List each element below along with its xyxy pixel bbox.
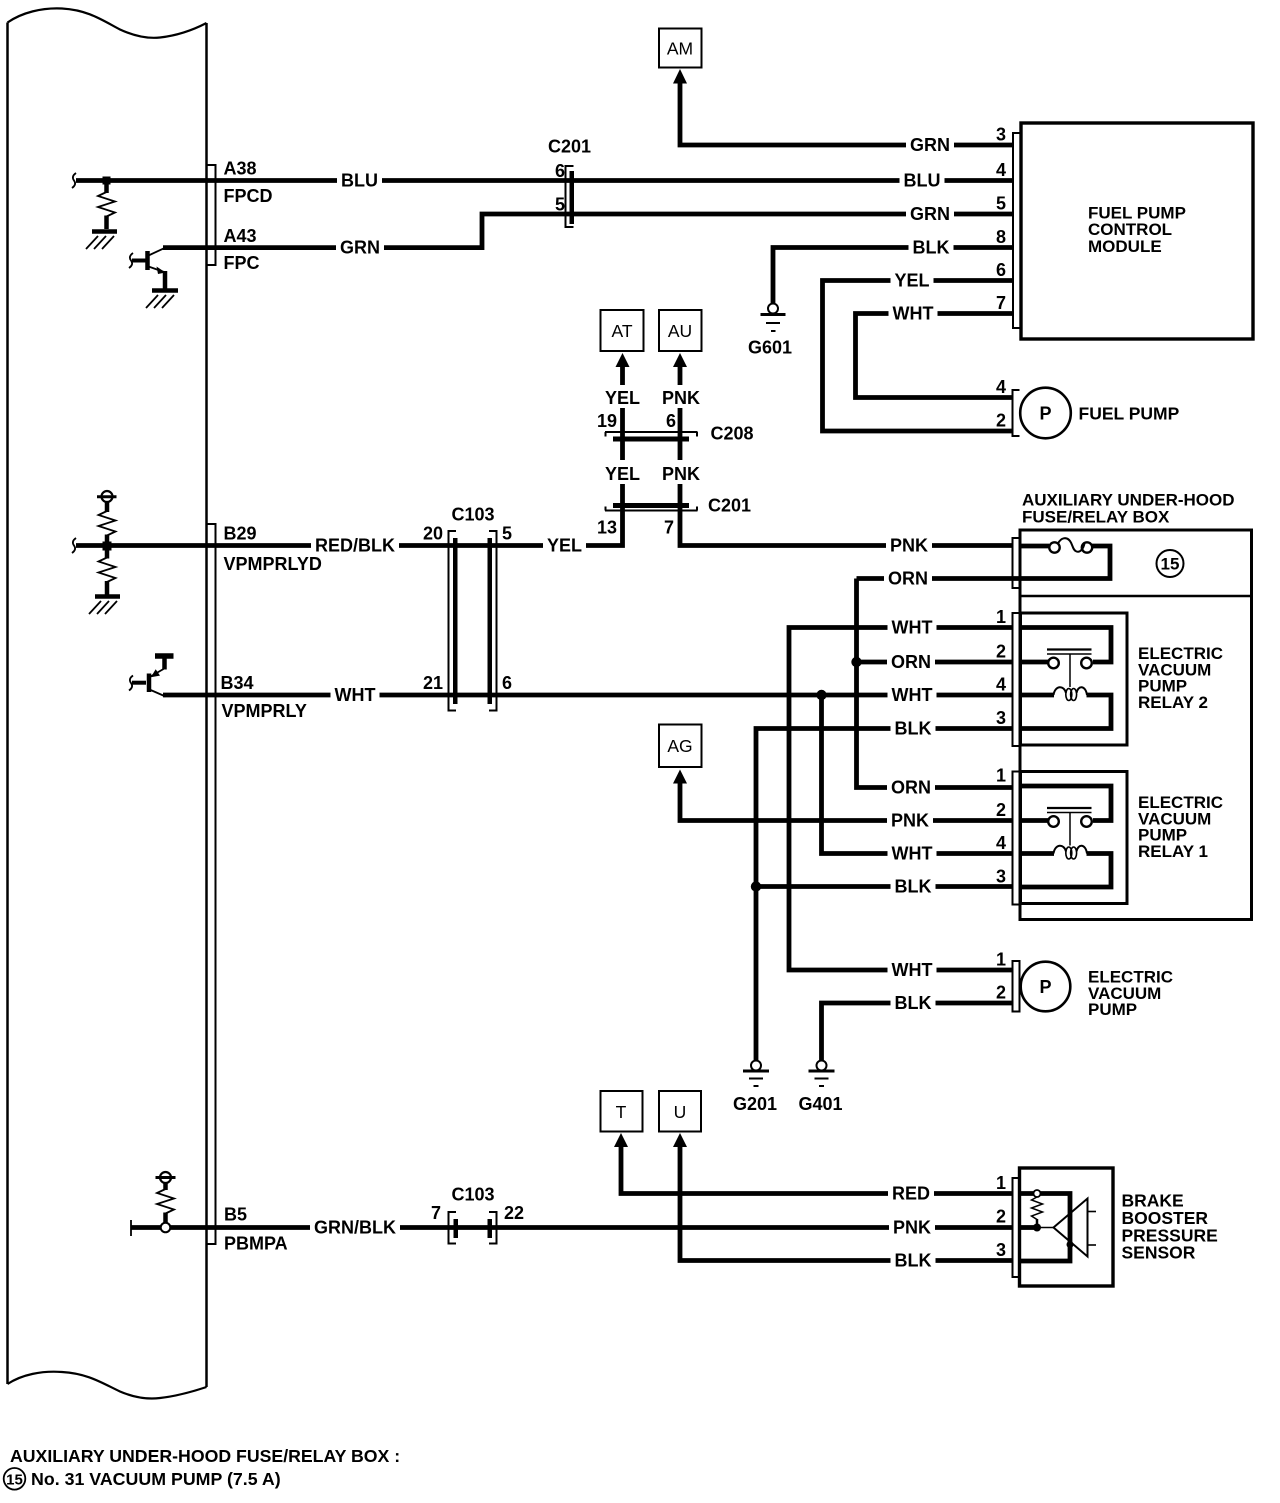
electric vacuum pump motor circle P bbox=[1021, 962, 1071, 1012]
svg-text:PBMPA: PBMPA bbox=[224, 1234, 288, 1254]
wire label WHT (pump pin1) bbox=[888, 959, 937, 981]
svg-text:AU: AU bbox=[668, 321, 692, 341]
connector C201 (middle horizontal) bbox=[605, 503, 698, 511]
svg-text:P: P bbox=[1039, 977, 1051, 997]
svg-text:GRN: GRN bbox=[910, 135, 950, 155]
svg-text:1: 1 bbox=[996, 607, 1006, 627]
svg-text:PNK: PNK bbox=[893, 1218, 931, 1238]
svg-text:BLK: BLK bbox=[895, 719, 932, 739]
connector box U bbox=[659, 1091, 701, 1132]
wire label BLK (pump pin2) bbox=[891, 992, 936, 1014]
svg-text:VPMPRLYD: VPMPRLYD bbox=[224, 554, 322, 574]
brake booster pressure sensor box bbox=[1020, 1168, 1114, 1286]
wire label RED bbox=[888, 1182, 934, 1204]
svg-text:2: 2 bbox=[996, 1207, 1006, 1227]
svg-text:No. 31 VACUUM PUMP (7.5 A): No. 31 VACUUM PUMP (7.5 A) bbox=[31, 1469, 281, 1489]
sensor internal circuit bbox=[1021, 1190, 1096, 1261]
svg-text:RELAY 2: RELAY 2 bbox=[1138, 693, 1208, 712]
fuel pump control module box bbox=[1021, 123, 1253, 339]
wire YEL between C208 and C201 bbox=[620, 442, 625, 461]
wire label WHT (B34 left) bbox=[331, 684, 380, 706]
svg-text:3: 3 bbox=[996, 1240, 1006, 1260]
svg-text:2: 2 bbox=[996, 983, 1006, 1003]
junction dot WHT branch on B34 row bbox=[816, 690, 826, 700]
wire BLK from U to sensor pin 3 bbox=[680, 1146, 1013, 1261]
svg-text:RED: RED bbox=[892, 1184, 930, 1204]
svg-text:C208: C208 bbox=[711, 424, 754, 444]
svg-text:SENSOR: SENSOR bbox=[1122, 1243, 1196, 1263]
svg-text:4: 4 bbox=[996, 675, 1006, 695]
svg-text:22: 22 bbox=[504, 1203, 524, 1223]
svg-text:5: 5 bbox=[502, 524, 512, 544]
svg-text:4: 4 bbox=[996, 833, 1006, 853]
wire BLK from G601 to FPCM pin 8 bbox=[773, 248, 1013, 305]
svg-text:15: 15 bbox=[1161, 555, 1180, 574]
svg-text:WHT: WHT bbox=[892, 960, 933, 980]
wire B5 PBMPA row (GRN/BLK) from module through C103 to sensor pin 2 bbox=[131, 1225, 1013, 1230]
wire label ORN (fuse out) bbox=[884, 567, 932, 589]
svg-text:AUXILIARY UNDER-HOOD FUSE/RELA: AUXILIARY UNDER-HOOD FUSE/RELAY BOX : bbox=[10, 1446, 400, 1466]
svg-text:BLK: BLK bbox=[895, 993, 932, 1013]
svg-text:2: 2 bbox=[996, 411, 1006, 431]
wire label PNK (relay1 pin2) bbox=[887, 809, 933, 831]
electric vacuum pump bracket bbox=[1013, 961, 1020, 1012]
ground symbol below B29 resistor bbox=[89, 597, 120, 615]
wire WHT from C103 pin 6 to relay 2 pin 4 bbox=[497, 693, 1013, 698]
svg-text:PNK: PNK bbox=[891, 811, 929, 831]
fuse section divider bbox=[1020, 595, 1252, 597]
svg-text:A43: A43 bbox=[224, 226, 257, 246]
svg-text:3: 3 bbox=[996, 708, 1006, 728]
svg-text:ORN: ORN bbox=[891, 778, 931, 798]
wire stub PNK into C208 pin 6 bbox=[678, 408, 683, 437]
svg-text:FPCD: FPCD bbox=[224, 186, 273, 206]
svg-text:PNK: PNK bbox=[662, 464, 700, 484]
transistor in module on B34 line bbox=[129, 656, 174, 697]
svg-text:6: 6 bbox=[666, 411, 676, 431]
svg-text:WHT: WHT bbox=[892, 844, 933, 864]
wire YEL from FPCM pin 6 down to fuel pump pin 2 bbox=[823, 281, 1013, 432]
connector box AU bbox=[659, 310, 702, 351]
ground symbol below FPC transistor bbox=[146, 291, 178, 309]
svg-text:G401: G401 bbox=[798, 1094, 842, 1114]
resistor on B5 line bbox=[157, 1189, 174, 1214]
relay internal contact & coil (relay2) bbox=[1022, 628, 1111, 729]
power symbol above B5 resistor bbox=[156, 1172, 176, 1190]
connector box AM bbox=[659, 29, 702, 68]
svg-text:GRN/BLK: GRN/BLK bbox=[314, 1218, 396, 1238]
svg-text:7: 7 bbox=[431, 1203, 441, 1223]
svg-text:YEL: YEL bbox=[605, 464, 640, 484]
svg-text:FUSE/RELAY BOX: FUSE/RELAY BOX bbox=[1022, 508, 1170, 527]
auxiliary under-hood fuse/relay box outline bbox=[1020, 530, 1252, 920]
relay outline box (relay2) bbox=[1021, 613, 1128, 745]
wire label BLK (relay1 pin3) bbox=[891, 875, 936, 897]
wire A43 FPC row (GRN) from transistor, up at x=482, to FPCM pin 5 bbox=[163, 214, 1013, 248]
wire BLK relay2 pin3 down to G201 bbox=[756, 729, 1013, 1061]
svg-text:1: 1 bbox=[996, 950, 1006, 970]
resistor in module on FPCD line bbox=[98, 181, 115, 230]
svg-text:15: 15 bbox=[6, 1471, 23, 1488]
svg-text:RELAY 1: RELAY 1 bbox=[1138, 842, 1208, 861]
transistor in module on FPC line bbox=[129, 248, 166, 289]
svg-text:G601: G601 bbox=[748, 338, 792, 358]
junction dot BLK at relay1 pin3 row bbox=[751, 881, 761, 891]
relay internal contact & coil (relay1) bbox=[1022, 786, 1111, 887]
wire RED from T to sensor pin 1 bbox=[621, 1146, 1013, 1194]
arrow into U box bbox=[673, 1133, 687, 1147]
connector C208 (horizontal) bbox=[605, 432, 698, 442]
svg-text:ORN: ORN bbox=[888, 569, 928, 589]
svg-text:21: 21 bbox=[423, 673, 443, 693]
svg-text:WHT: WHT bbox=[893, 304, 934, 324]
wire A38 FPCD row (BLU) from module through C201 to FPCM pin 4 bbox=[76, 178, 1013, 183]
svg-text:BLK: BLK bbox=[895, 877, 932, 897]
caption circled 15 bbox=[4, 1468, 26, 1490]
connector C103 (tall, rows 20-5 / 21-6) bbox=[449, 530, 497, 712]
svg-text:C201: C201 bbox=[548, 137, 591, 157]
svg-text:3: 3 bbox=[996, 867, 1006, 887]
svg-text:4: 4 bbox=[996, 377, 1006, 397]
wire B34 VPMPRLY row (WHT) from transistor to C103 bbox=[163, 693, 497, 698]
svg-text:20: 20 bbox=[423, 524, 443, 544]
wire label GRN (row 3) bbox=[906, 134, 954, 156]
wire label BLU (row 4 right) bbox=[900, 169, 945, 191]
wire label PNK (row to fuse) bbox=[886, 534, 932, 556]
brake booster pressure sensor bracket bbox=[1013, 1178, 1020, 1277]
svg-text:1: 1 bbox=[996, 1173, 1006, 1193]
connector box T bbox=[601, 1091, 643, 1132]
wire ORN to relay 2 pin 2 bbox=[857, 660, 1013, 665]
wire PNK from AG to relay1 pin 2 bbox=[680, 783, 1013, 821]
wire label YEL (left of C201-13) bbox=[543, 534, 586, 556]
wire label WHT (relay1 pin4) bbox=[888, 842, 937, 864]
svg-text:YEL: YEL bbox=[605, 388, 640, 408]
svg-text:6: 6 bbox=[502, 673, 512, 693]
svg-text:G201: G201 bbox=[733, 1094, 777, 1114]
vertical ORN bus to relay2 pin2 and relay1 pin1 bbox=[857, 579, 1013, 788]
wire WHT from FPCM pin 7 down to fuel pump pin 4 bbox=[856, 314, 1013, 398]
svg-text:PNK: PNK bbox=[890, 536, 928, 556]
junction dot B29 divider tap bbox=[103, 542, 112, 551]
svg-text:8: 8 bbox=[996, 227, 1006, 247]
arrow into AT box bbox=[616, 353, 630, 367]
svg-text:U: U bbox=[674, 1102, 687, 1122]
svg-text:YEL: YEL bbox=[894, 271, 929, 291]
fuse 15 internal circuit loop bbox=[1021, 538, 1110, 578]
connector bracket B29/B34/B5 on module edge bbox=[207, 524, 216, 1244]
ground G601 symbol bbox=[761, 304, 786, 332]
junction dot A38 resistor tap bbox=[103, 177, 111, 185]
svg-text:PNK: PNK bbox=[662, 388, 700, 408]
wire YEL from C201 pin 13 down-left to C103 bbox=[497, 508, 623, 546]
svg-text:P: P bbox=[1039, 404, 1051, 424]
wire GRN from AM arrow to FPCM pin 3 bbox=[680, 83, 1013, 145]
connector box AT bbox=[601, 310, 644, 351]
svg-text:T: T bbox=[616, 1102, 627, 1122]
wire PNK from C201 pin 7 down-right to fuse box bbox=[680, 508, 1013, 546]
svg-text:AM: AM bbox=[667, 39, 693, 59]
svg-text:BLK: BLK bbox=[913, 238, 950, 258]
wire label BLK (relay2 pin3) bbox=[891, 717, 936, 739]
arrow into T box bbox=[614, 1133, 628, 1147]
wire label WHT (relay2 pin1) bbox=[888, 616, 937, 638]
wire continuation mark at B29 left end bbox=[72, 538, 76, 553]
connector box AG bbox=[659, 725, 702, 768]
ground G201 symbol bbox=[743, 1061, 769, 1087]
svg-text:2: 2 bbox=[996, 800, 1006, 820]
svg-text:WHT: WHT bbox=[335, 685, 376, 705]
wire label GRN (left, A43) bbox=[336, 236, 384, 258]
svg-text:6: 6 bbox=[555, 161, 565, 181]
arrow into AG box bbox=[673, 770, 687, 784]
svg-text:B34: B34 bbox=[221, 673, 254, 693]
svg-text:4: 4 bbox=[996, 160, 1006, 180]
svg-text:FPC: FPC bbox=[224, 253, 260, 273]
resistor lower half on B29 line bbox=[105, 546, 110, 559]
arrow into AM box bbox=[673, 69, 687, 84]
svg-text:3: 3 bbox=[996, 125, 1006, 145]
svg-text:BLU: BLU bbox=[904, 171, 941, 191]
wire WHT branch down to relay1 pin 4 bbox=[822, 695, 1013, 854]
svg-text:PUMP: PUMP bbox=[1088, 1000, 1137, 1019]
terminal circle on B5 row bbox=[161, 1223, 171, 1233]
svg-text:GRN: GRN bbox=[910, 204, 950, 224]
wire label YEL (row 6) bbox=[891, 269, 934, 291]
connector bracket A38/A43 on module edge bbox=[207, 165, 216, 265]
ground G401 symbol bbox=[809, 1061, 835, 1087]
svg-text:B29: B29 bbox=[224, 524, 257, 544]
svg-text:5: 5 bbox=[996, 194, 1006, 214]
svg-text:1: 1 bbox=[996, 766, 1006, 786]
svg-text:B5: B5 bbox=[224, 1205, 247, 1225]
wire label GRN/BLK bbox=[310, 1216, 400, 1238]
wire ORN from fuse to vertical bus bbox=[857, 576, 1021, 581]
power symbol above B29 divider bbox=[97, 491, 117, 512]
svg-text:RED/BLK: RED/BLK bbox=[315, 536, 395, 556]
wire stub YEL into C208 pin 19 bbox=[620, 408, 625, 437]
connector C103 (bottom, pin 7-22) bbox=[449, 1211, 497, 1245]
svg-text:C103: C103 bbox=[452, 505, 495, 525]
FPCM pin bracket bbox=[1013, 132, 1021, 329]
wire label ORN (relay2 pin2) bbox=[887, 651, 935, 673]
wire BLK pump pin2 to G401 bbox=[822, 1003, 1013, 1060]
svg-text:FUEL PUMP: FUEL PUMP bbox=[1079, 404, 1180, 424]
svg-text:WHT: WHT bbox=[892, 618, 933, 638]
svg-text:AT: AT bbox=[611, 321, 632, 341]
wire PNK between C208 and C201 bbox=[678, 442, 683, 461]
wire label BLK (sensor pin3) bbox=[891, 1249, 936, 1271]
svg-text:C201: C201 bbox=[708, 496, 751, 516]
fuel pump motor circle P bbox=[1020, 388, 1071, 439]
left harness module outline (torn-edge body) bbox=[8, 8, 207, 1398]
svg-text:MODULE: MODULE bbox=[1088, 237, 1162, 256]
relay bracket (relay2) bbox=[1013, 613, 1020, 746]
svg-text:BLU: BLU bbox=[341, 171, 378, 191]
svg-text:19: 19 bbox=[597, 411, 617, 431]
junction dot ORN at relay2 pin 2 row bbox=[851, 657, 861, 667]
resistor upper half on B29 line bbox=[99, 511, 116, 536]
svg-text:A38: A38 bbox=[224, 159, 257, 179]
fuel pump bracket bbox=[1013, 389, 1020, 437]
svg-text:2: 2 bbox=[996, 642, 1006, 662]
fuse number circled 15 bbox=[1157, 550, 1184, 577]
svg-text:GRN: GRN bbox=[340, 238, 380, 258]
svg-text:7: 7 bbox=[996, 293, 1006, 313]
svg-text:VPMPRLY: VPMPRLY bbox=[222, 701, 307, 721]
svg-text:6: 6 bbox=[996, 260, 1006, 280]
wire label GRN (row 5) bbox=[906, 203, 954, 225]
wire label RED/BLK bbox=[311, 534, 399, 556]
connector C201 (top) between BLU/GRN rows bbox=[566, 165, 575, 228]
svg-text:AG: AG bbox=[667, 736, 692, 756]
svg-text:BLK: BLK bbox=[895, 1251, 932, 1271]
arrow into AU box bbox=[673, 353, 687, 367]
wire label BLU (left) bbox=[337, 169, 382, 191]
svg-text:5: 5 bbox=[555, 195, 565, 215]
svg-text:WHT: WHT bbox=[892, 685, 933, 705]
relay bracket (relay1) bbox=[1013, 772, 1020, 905]
relay outline box (relay1) bbox=[1021, 772, 1128, 904]
svg-text:13: 13 bbox=[597, 518, 617, 538]
wire continuation mark at A38 left end bbox=[72, 173, 76, 188]
wire BLK to relay 1 pin 3 bbox=[756, 884, 1013, 889]
ground symbol below FPCD resistor bbox=[86, 232, 117, 250]
wire label BLK (row 8) bbox=[909, 236, 954, 258]
wire end tick at B5 left bbox=[130, 1220, 132, 1236]
svg-text:YEL: YEL bbox=[547, 536, 582, 556]
wire WHT relay2 pin1 to electric vacuum pump pin1 bbox=[789, 628, 1013, 971]
wire label WHT (row 7) bbox=[889, 302, 938, 324]
fuse bracket bbox=[1013, 538, 1020, 588]
svg-text:ORN: ORN bbox=[891, 652, 931, 672]
wire label PNK (sensor pin2) bbox=[889, 1216, 935, 1238]
svg-text:7: 7 bbox=[664, 518, 674, 538]
wire B29 VPMPRLYD row (RED/BLK) from module to C103 bbox=[76, 543, 497, 548]
wire label ORN (relay1 pin1) bbox=[887, 776, 935, 798]
svg-text:C103: C103 bbox=[452, 1185, 495, 1205]
